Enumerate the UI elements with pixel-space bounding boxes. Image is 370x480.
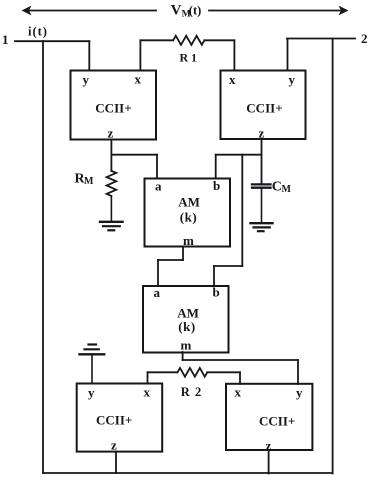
svg-text:C: C [272, 180, 282, 195]
svg-text:y: y [83, 72, 90, 87]
svg-text:z: z [111, 438, 117, 453]
svg-text:z: z [266, 438, 272, 453]
svg-text:b: b [213, 178, 220, 193]
svg-text:x: x [144, 385, 151, 400]
svg-text:AM: AM [178, 195, 200, 210]
svg-text:x: x [235, 385, 242, 400]
svg-text:z: z [259, 126, 265, 141]
svg-text:2: 2 [361, 31, 368, 46]
svg-text:M: M [84, 176, 94, 187]
svg-text:CCII+: CCII+ [246, 101, 282, 116]
svg-text:1: 1 [2, 32, 9, 47]
svg-text:i(t): i(t) [28, 25, 48, 39]
svg-text:CCII+: CCII+ [95, 101, 131, 116]
svg-text:y: y [296, 385, 303, 400]
svg-text:y: y [289, 72, 296, 87]
svg-text:x: x [135, 72, 142, 87]
svg-text:V: V [171, 3, 182, 19]
svg-text:z: z [108, 126, 114, 141]
svg-text:(k): (k) [180, 210, 197, 225]
svg-text:R: R [180, 51, 189, 65]
svg-text:y: y [88, 385, 95, 400]
svg-text:x: x [229, 72, 236, 87]
svg-text:2: 2 [195, 385, 201, 399]
svg-text:m: m [181, 338, 192, 353]
svg-text:b: b [213, 285, 220, 300]
svg-text:M: M [282, 184, 292, 195]
svg-text:CCII+: CCII+ [259, 414, 295, 429]
svg-text:a: a [154, 285, 161, 300]
svg-text:CCII+: CCII+ [96, 413, 132, 428]
svg-text:(k): (k) [178, 319, 195, 334]
svg-text:m: m [183, 233, 194, 248]
svg-text:a: a [155, 179, 162, 194]
svg-text:(t): (t) [189, 4, 202, 18]
svg-text:1: 1 [191, 51, 197, 65]
svg-text:R: R [181, 385, 191, 399]
